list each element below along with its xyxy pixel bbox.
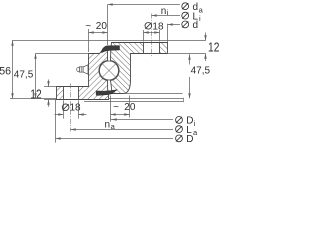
svg-text:D: D: [186, 134, 193, 145]
svg-text:~: ~: [113, 102, 119, 113]
svg-text:20: 20: [124, 102, 136, 113]
svg-text:n: n: [161, 6, 167, 17]
svg-text:d: d: [193, 20, 199, 31]
svg-text:12: 12: [208, 41, 219, 54]
svg-text:18: 18: [152, 21, 164, 32]
svg-text:47,5: 47,5: [191, 66, 211, 77]
svg-text:18: 18: [70, 103, 82, 114]
svg-text:~: ~: [85, 21, 91, 32]
svg-text:56: 56: [0, 66, 11, 78]
svg-text:47,5: 47,5: [14, 70, 34, 81]
svg-text:20: 20: [96, 21, 108, 32]
svg-text:n: n: [105, 120, 111, 131]
svg-text:12: 12: [30, 89, 41, 102]
